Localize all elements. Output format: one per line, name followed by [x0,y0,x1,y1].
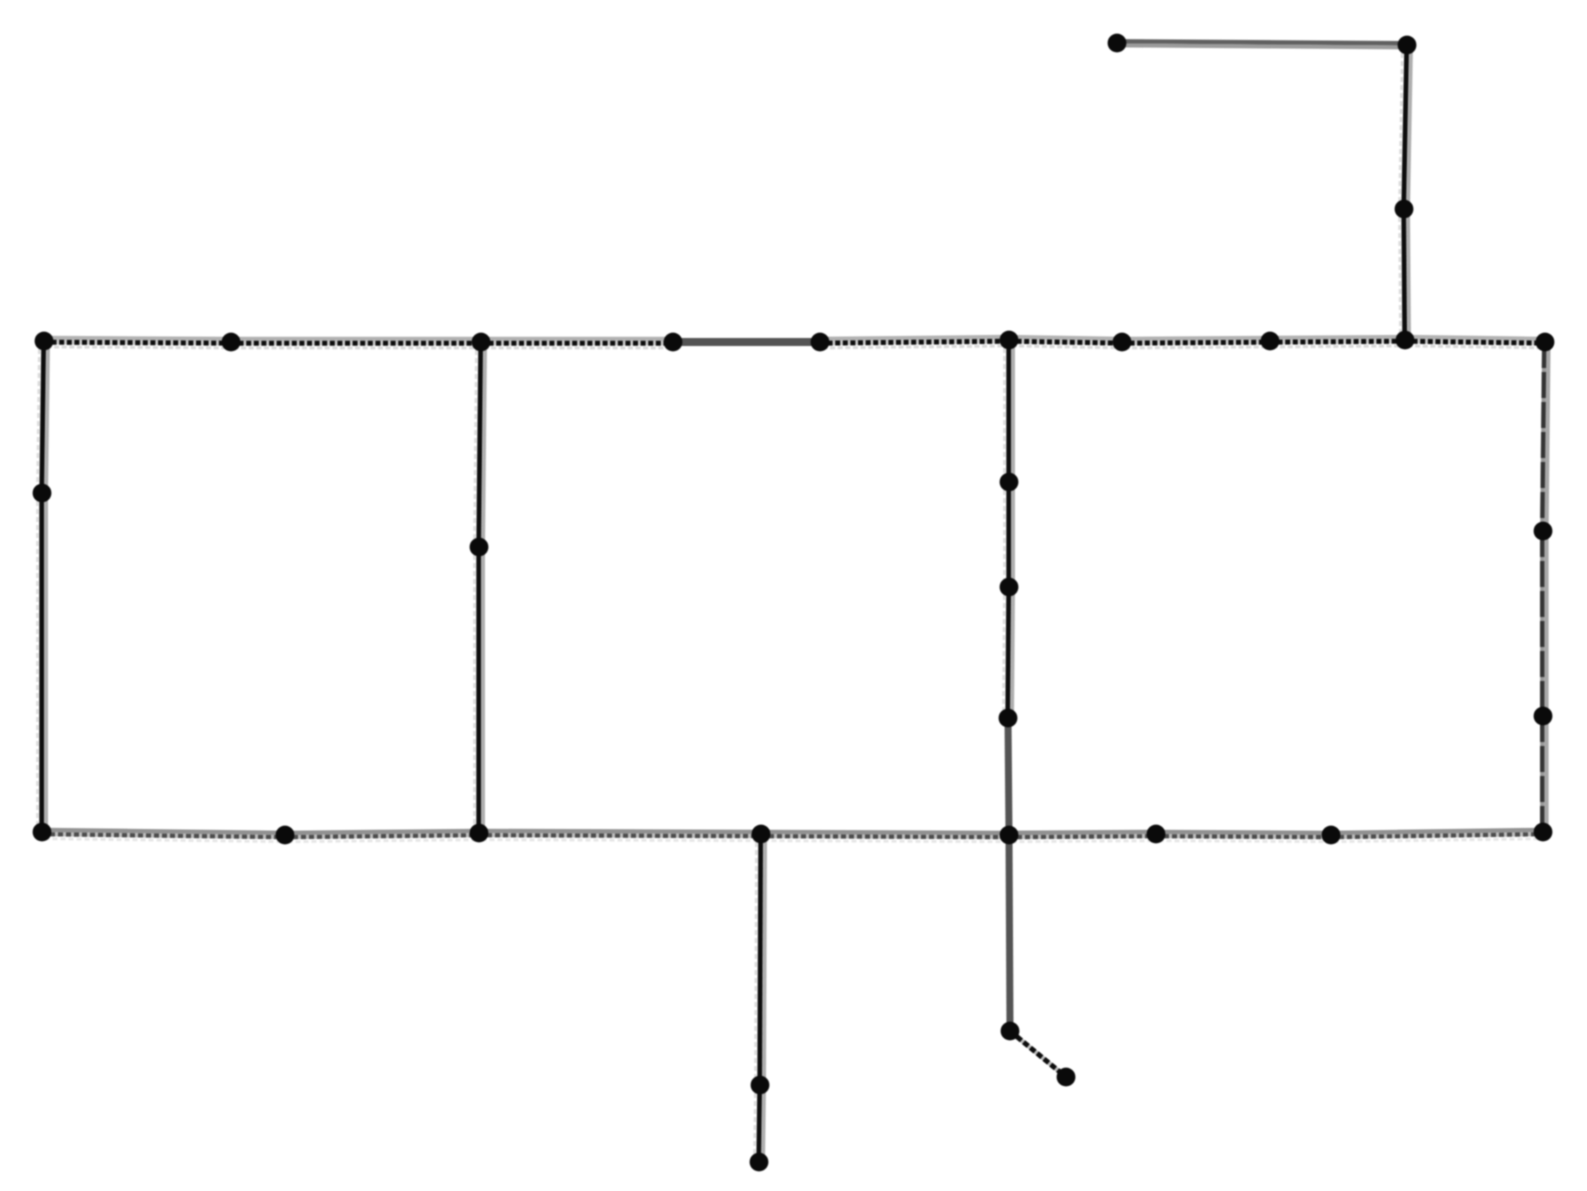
node B3 [470,824,489,843]
node B6 [1147,825,1166,844]
wire R2-B8 [1542,716,1546,832]
wire R1-R2 [1542,531,1546,716]
wire N2-N3 [1003,587,1013,718]
wire T4-T5 [673,338,820,346]
node T2 [222,333,241,352]
node B1 [33,823,52,842]
wire M1-B3 [474,547,483,833]
wire T8-T9 [1270,337,1408,347]
node T9 [1396,331,1415,350]
wire A2-A3 [1399,45,1411,209]
wire B5-B6 [1009,832,1159,842]
node N3 [999,709,1018,728]
wire B1-B2 [42,830,288,842]
node B8 [1534,823,1553,842]
node A2 [1398,36,1417,55]
wire B5-E1 [1009,835,1010,1031]
wire T5-T6 [820,337,1012,348]
node T5 [811,333,830,352]
wire E1-E2 [1010,1031,1068,1079]
wire B4-B5 [761,832,1012,842]
node A1 [1108,34,1127,53]
wire N1-N2 [1004,482,1013,587]
wire T10-R1 [1542,342,1548,531]
wire B2-B3 [285,831,482,842]
node M1 [470,538,489,557]
node N2 [1000,578,1019,597]
wire T2-T3 [231,339,484,348]
wire B3-B4 [479,831,764,841]
node D2 [750,1153,769,1172]
wire T3-T4 [481,339,676,348]
node T8 [1261,332,1280,351]
node T6 [1000,331,1019,350]
wire L1-B1 [37,493,46,832]
wire T1-T2 [44,338,234,348]
node N1 [1000,473,1019,492]
wire D1-D2 [754,1085,764,1162]
wire T6-N1 [1004,340,1013,482]
wire A1-A2 [1117,41,1407,47]
wire T3-M1 [474,342,485,547]
wire T1-L1 [37,341,48,493]
wire B7-B8 [1331,830,1546,842]
node A3 [1395,200,1414,219]
node T4 [664,333,683,352]
node R1 [1534,522,1553,541]
wire T6-T7 [1009,337,1125,348]
wire B4-D1 [755,834,765,1085]
node B4 [752,825,771,844]
wire B6-B7 [1156,832,1334,842]
node T3 [472,333,491,352]
wire T9-T10 [1405,337,1548,348]
wire A3-T9 [1399,209,1409,340]
node B2 [276,826,295,845]
wire T7-T8 [1122,338,1273,348]
node E1 [1001,1022,1020,1041]
node T10 [1536,333,1555,352]
node T1 [35,332,54,351]
node B7 [1322,826,1341,845]
node B5 [1000,826,1019,845]
node T7 [1113,333,1132,352]
node R2 [1534,707,1553,726]
node E2 [1057,1068,1076,1087]
node D1 [751,1076,770,1095]
wire N3-B5 [1008,718,1009,835]
node L1 [33,484,52,503]
